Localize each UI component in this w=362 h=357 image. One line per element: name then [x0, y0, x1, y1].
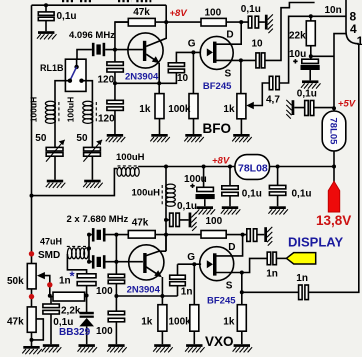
svg-text:BFO: BFO [203, 121, 232, 136]
wire source down [241, 273, 243, 305]
svg-text:D: D [228, 242, 235, 253]
wire 4,7 to counter pin8 [279, 16, 345, 83]
capacitor 1n VXO gate [177, 264, 179, 296]
wire Q2 collector vertical [165, 235, 167, 252]
node crystal lower left [87, 260, 91, 264]
ground 100k VXO [185, 344, 205, 352]
ground 0,1u rail mid [221, 206, 241, 214]
inductor L2 100uH branch B [83, 101, 97, 123]
node VXO emitter [160, 294, 164, 298]
wire crystal right bus [106, 235, 143, 275]
ground 1k buffer [233, 344, 253, 352]
svg-text:4.096 MHz: 4.096 MHz [69, 30, 115, 41]
BF245 VXO drain wire [217, 235, 243, 256]
wire 1k VXO ground [161, 331, 163, 344]
capacitor 1n counter [299, 285, 303, 300]
transistor Q1 collector [146, 22, 166, 46]
transistor U2 BF245 VXO circle [200, 247, 234, 281]
wire 47k trimmer tap [32, 319, 44, 340]
wire VXO rail y=234.6 [155, 234, 247, 236]
resistor 100 VXO drain feed [201, 231, 226, 239]
transistor Q1 emitter with arrow [146, 54, 158, 62]
transistor Q2 emitter with arrow [146, 267, 160, 276]
node emitter BFO [157, 81, 161, 85]
ground 1k BFO [150, 134, 170, 142]
capacitor 100 divider upper [108, 274, 124, 278]
svg-text:1k: 1k [223, 104, 235, 115]
svg-text:1k: 1k [223, 317, 235, 328]
node BFO source [239, 58, 243, 62]
svg-text:100k: 100k [168, 104, 191, 115]
capacitor 0,1u rail right [277, 167, 279, 207]
capacitor C 0,1u top-left plates [38, 12, 54, 15]
wire 1k buffer ground [241, 331, 243, 344]
node counter output [240, 290, 244, 294]
wire 100k VXO ground [193, 331, 195, 344]
wire wiper to 4,7 cap [253, 83, 269, 106]
capacitor 10u electrolytic [309, 56, 312, 80]
wire 100k to ground [193, 119, 195, 134]
capacitor 120 lower [107, 100, 123, 104]
svg-text:2,2k: 2,2k [61, 306, 81, 317]
plug 13,8V red [328, 181, 339, 212]
wire divider mid [115, 284, 117, 312]
ground 120 divider [106, 134, 126, 142]
node rail VXO feed [164, 165, 168, 169]
wire +8V feed drop x=166 [165, 5, 167, 22]
resistor 2,2k [53, 292, 85, 301]
plus sign 100u [190, 184, 194, 188]
svg-text:100u: 100u [184, 174, 207, 185]
node SMD coil junction [87, 246, 91, 250]
potentiometer 50k [27, 264, 36, 289]
wire pin 4 to +5V [334, 34, 346, 109]
svg-text:S: S [226, 280, 233, 291]
svg-text:0,1u: 0,1u [297, 89, 317, 100]
ground trimmer 1k [240, 119, 242, 134]
resistor 100k VXO gate [190, 305, 199, 332]
node crystal upper left [87, 233, 91, 237]
capacitor 100u electrolytic [204, 167, 205, 207]
svg-text:4,7: 4,7 [266, 95, 280, 106]
svg-text:78L05: 78L05 [328, 118, 339, 146]
transistor Q1 2N3904 BFO circle [128, 33, 163, 68]
svg-text:100k: 100k [169, 317, 192, 328]
wire 22k node to pin4 column [311, 55, 334, 57]
svg-text:50: 50 [35, 133, 47, 144]
inductor 100uH vertical choke [162, 184, 175, 206]
wire Q2 emitter down [161, 277, 163, 305]
crystal X1 4.096 MHz [92, 43, 105, 56]
ground wall BFO rail [265, 14, 273, 33]
wire divider tap to emitter [115, 82, 159, 84]
crystal X3 7.680 MHz lower [92, 255, 106, 268]
svg-text:2N3904: 2N3904 [125, 72, 159, 83]
capacitor 1n* [77, 274, 96, 278]
transistor U1 BF245 BFO circle [200, 36, 233, 69]
svg-text:DISPLAY: DISPLAY [288, 235, 343, 250]
svg-text:10n: 10n [325, 5, 342, 16]
resistor 1k VXO buffer source [237, 305, 246, 332]
node rail right 0,1u [276, 165, 280, 169]
svg-text:100: 100 [205, 7, 222, 18]
wire relay left throw [55, 81, 70, 102]
wire 100k VXO down [193, 264, 195, 305]
svg-text:RL1B: RL1B [40, 63, 64, 73]
svg-text:0,1u: 0,1u [177, 201, 197, 212]
pot 50k wiper arrow [45, 276, 50, 297]
node wiper RC [48, 294, 52, 298]
svg-text:G: G [188, 39, 196, 50]
BF245 VXO gate arrow [207, 260, 213, 268]
wire 1n to yellow plug [276, 257, 287, 259]
regulator 78L05 [322, 111, 346, 151]
wire +8V rail y=166.5 [138, 166, 334, 168]
ground main bus [22, 346, 42, 354]
ground trimmer B [83, 180, 103, 188]
top edge crop marks [62, 0, 151, 2]
wire 100 lower to ground [115, 322, 117, 344]
ground 1k VXO [153, 344, 173, 352]
svg-text:1n: 1n [266, 268, 278, 279]
node VXO emitter rail left [114, 294, 118, 298]
svg-text:+5V: +5V [338, 99, 356, 110]
resistor 1k VXO emitter [158, 305, 167, 332]
svg-text:100uH: 100uH [65, 97, 75, 123]
wire Q1 emitter down [158, 63, 160, 94]
capacitor 0,1u VXO drain bypass [247, 229, 251, 242]
capacitor 1n display [267, 252, 271, 265]
transistor Q2 2N3904 VXO circle [129, 245, 164, 280]
svg-text:22k: 22k [289, 31, 306, 42]
svg-text:100: 100 [96, 326, 113, 337]
BF245 BFO drain wire [217, 22, 242, 44]
svg-text:120: 120 [98, 114, 115, 125]
node 47k tap return [30, 338, 34, 342]
trimmer capacitor 50 branch B [83, 123, 102, 179]
svg-text:1n: 1n [181, 287, 193, 298]
svg-text:120: 120 [98, 74, 115, 85]
red node pot bottom [29, 294, 34, 299]
wire 78L05 output top [333, 108, 335, 111]
capacitor 0,1u VXO supply [166, 219, 189, 221]
ground trimmer A [46, 180, 66, 188]
transistor Q2 base bar [143, 253, 146, 273]
trimmer resistor 1k BFO output [237, 94, 246, 119]
ground wall +5V bypass [286, 100, 294, 119]
resistor 1k BFO emitter [155, 94, 164, 119]
ground wall VXO drain bypass [257, 234, 264, 236]
wire BFO rail y=22 [115, 21, 265, 23]
wire counter feed y=292.3 [242, 44, 359, 293]
ground top-left [37, 31, 57, 39]
svg-text:1n: 1n [296, 273, 308, 284]
node rail 100u [202, 165, 206, 169]
svg-text:1k: 1k [141, 317, 153, 328]
wire source to display cap [242, 258, 267, 272]
svg-text:100uH: 100uH [116, 152, 145, 163]
inductor 47uH SMD [67, 246, 89, 258]
wire 120 lower to ground [114, 110, 116, 134]
transistor Q1 base bar [143, 41, 146, 61]
wire VXO gate [178, 263, 202, 265]
wire crystals left bus [89, 235, 92, 262]
node top-left cap junction [44, 3, 48, 7]
resistor 100k BFO gate [189, 94, 198, 119]
svg-text:BF245: BF245 [207, 295, 236, 306]
wire BFO output to top mixer [265, 3, 315, 61]
node +5V junction [332, 106, 336, 110]
svg-text:SMD: SMD [38, 250, 60, 261]
svg-text:100uH: 100uH [29, 97, 39, 123]
resistor 47k BFO bias [128, 18, 155, 26]
wire choke left to +8V bus [32, 169, 118, 196]
node 22k top [309, 14, 313, 18]
red node pot top [29, 251, 34, 256]
plug DISPLAY yellow [286, 253, 315, 264]
relay contact left [68, 79, 72, 83]
ground 0,1u rail right [268, 206, 288, 214]
capacitor 10 BFO emitter-gate [168, 63, 184, 67]
inductor 100uH horizontal choke [117, 166, 139, 176]
node crystal bus top [114, 233, 118, 237]
node varactor 2,2k junction [85, 294, 89, 298]
svg-text:0,1u: 0,1u [241, 4, 261, 15]
node VXO drain rail [241, 233, 245, 237]
node choke 0,1u tap [164, 218, 168, 222]
svg-text:+8V: +8V [170, 8, 188, 19]
wire relay right throw [82, 81, 93, 102]
node BFO drain rail [239, 20, 243, 24]
BF245 VXO source wire [217, 272, 242, 274]
capacitor C 0,1u top-left lead [45, 5, 47, 31]
red node wiper [47, 282, 52, 287]
svg-text:100: 100 [206, 216, 223, 227]
relay common contact [76, 59, 78, 67]
node 120 divider tap [113, 81, 117, 85]
svg-text:2 x 7.680 MHz: 2 x 7.680 MHz [67, 214, 129, 225]
ground BB329 [78, 344, 98, 352]
wire 10 cap bottom to emitter [159, 73, 176, 84]
wire 2,2k left [50, 296, 53, 298]
svg-text:13,8V: 13,8V [316, 213, 351, 228]
wire 13,8V plug lead [333, 167, 335, 183]
svg-text:BB329: BB329 [59, 327, 91, 338]
wire 120 junction [114, 72, 116, 100]
resistor 100 BFO drain feed [201, 18, 226, 26]
wire choke to VXO rail [165, 206, 167, 251]
svg-text:0,1u: 0,1u [53, 317, 73, 328]
svg-text:10u: 10u [289, 49, 306, 60]
regulator 78L08 [235, 155, 270, 180]
capacitor 4,7 [269, 76, 273, 89]
inductor L1 100uH branch A [45, 101, 59, 123]
node VXO base [114, 260, 118, 264]
capacitor 10 BFO output [256, 53, 260, 68]
BF245 BFO channel bar [213, 42, 217, 63]
BF245 VXO channel bar [213, 253, 217, 275]
wire 100k BFO down [192, 52, 194, 93]
node +8V bus tap [30, 194, 34, 198]
node rail 13,8V input [332, 165, 336, 169]
node VXO gate [192, 262, 196, 266]
wire base node down to 120 divider [114, 50, 116, 62]
wire crystal right to base [105, 49, 143, 51]
relay armature blue [70, 67, 77, 81]
wire 1n* to varactor [86, 286, 88, 312]
svg-text:S: S [225, 68, 232, 79]
varactor BB329 [79, 312, 94, 344]
wire emitter rail y=296 [116, 295, 177, 297]
vertical choke feed from rail [165, 167, 167, 185]
capacitor 0,1u BFO rail bypass [248, 16, 252, 28]
ground 10u [301, 80, 321, 88]
ground 100 divider [107, 344, 127, 352]
node +8V rail junction [164, 20, 168, 24]
svg-text:47k: 47k [132, 217, 149, 228]
svg-text:0,1u: 0,1u [57, 11, 77, 22]
svg-text:78L08: 78L08 [238, 162, 268, 174]
svg-text:47k: 47k [133, 7, 150, 18]
node VXO collector rail [164, 233, 168, 237]
svg-text:1k: 1k [139, 104, 151, 115]
wire 47k left lead down to base node [115, 22, 128, 49]
capacitor 100 divider lower [108, 311, 124, 315]
resistor 47k lower trimmer [27, 307, 36, 332]
resistor 22k [310, 16, 312, 56]
svg-text:10: 10 [252, 38, 264, 49]
ground 0,1u tuning [42, 344, 62, 352]
wire left +8V bus x=31.5 [31, 5, 33, 346]
wire BFO trimmer feed [240, 60, 242, 93]
svg-text:100uH: 100uH [132, 187, 161, 198]
svg-text:+8V: +8V [212, 156, 230, 167]
node VXO source [240, 271, 244, 275]
relay contact right [79, 79, 83, 83]
ground 100k BFO [184, 134, 204, 142]
svg-text:50: 50 [76, 133, 88, 144]
svg-text:0,1u: 0,1u [242, 189, 262, 200]
node 22k bottom 10u top [309, 54, 313, 58]
resistor 47k VXO bias [128, 231, 155, 239]
svg-text:2N3904: 2N3904 [127, 285, 161, 296]
capacitor 0,1u tuning filter [50, 297, 52, 345]
ground wall 0,1u VXO supply [189, 212, 197, 231]
svg-text:10: 10 [177, 73, 189, 84]
svg-text:BF245: BF245 [203, 81, 232, 92]
wire 10 cap top to gate [176, 52, 201, 62]
crystal X2 7.680 MHz upper [92, 228, 106, 241]
node gate BFO [191, 50, 195, 54]
svg-text:0,1u: 0,1u [292, 189, 312, 200]
wire top +8V distribution y=5 [32, 4, 167, 6]
transistor Q2 collector [146, 251, 166, 255]
capacitor 0,1u +5V [294, 107, 334, 109]
svg-text:100: 100 [96, 286, 113, 297]
trimmer capacitor 50 branch A [46, 123, 65, 179]
wire 1k to ground [159, 119, 161, 134]
wire crystal left to relay [77, 50, 92, 60]
wire 78L05 input bottom [333, 151, 335, 167]
svg-text:47k: 47k [7, 316, 24, 327]
capacitor 120 upper [107, 62, 123, 66]
node rail 0,1u [228, 165, 232, 169]
plus sign 10u [293, 59, 297, 63]
BF245 BFO source wire [217, 59, 256, 61]
svg-text:47uH: 47uH [40, 237, 62, 247]
svg-text:50k: 50k [7, 276, 24, 287]
trimmer 1k wiper arrow [246, 102, 254, 109]
svg-text:G: G [187, 252, 195, 263]
node BFO base [113, 48, 117, 52]
svg-text:D: D [226, 30, 233, 41]
BF245 BFO gate arrow [207, 48, 213, 56]
wire SMD coil to 1n* [67, 254, 86, 274]
capacitor 0,1u rail mid [229, 167, 231, 207]
svg-text:VXO: VXO [205, 334, 234, 349]
ground 100u [196, 206, 216, 214]
relay RL1B box [65, 59, 86, 91]
IC counter outline top-right [346, 0, 359, 44]
